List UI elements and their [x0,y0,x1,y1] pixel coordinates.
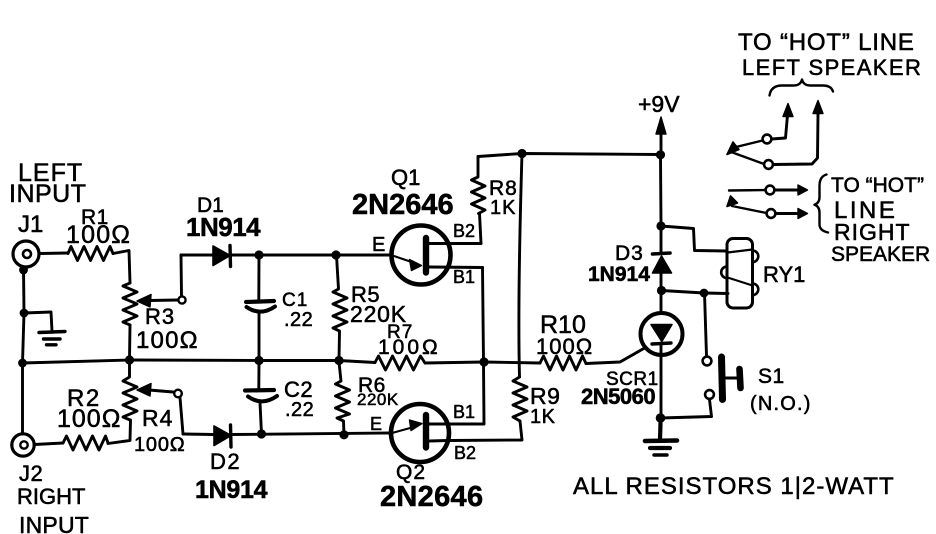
node dot below J1 [19,266,28,275]
svg-text:1K: 1K [530,406,556,428]
transistor Q2 2N2646 [391,404,449,462]
svg-text:B2: B2 [453,221,475,241]
svg-text:INPUT: INPUT [9,180,87,208]
svg-text:+9V: +9V [638,91,680,117]
svg-text:100Ω: 100Ω [134,434,186,456]
node dot S1 top [700,289,709,298]
arrowhead right 2 [798,209,808,219]
svg-text:2N2646: 2N2646 [352,189,454,221]
svg-text:100Ω: 100Ω [136,327,199,354]
svg-text:B1: B1 [453,402,475,422]
node dot C1 top [254,250,263,259]
svg-text:1N914: 1N914 [186,212,261,242]
wire Q1 B2 up to R8 [480,214,482,244]
resistor R6 [336,362,350,435]
brace right speaker [815,175,829,233]
svg-text:TO “HOT”: TO “HOT” [831,174,924,197]
jack J2 [12,434,34,456]
wire node A (upper) y=255 [181,254,391,257]
svg-text:E: E [370,414,382,434]
svg-text:ALL RESISTORS 1|2-WATT: ALL RESISTORS 1|2-WATT [573,473,895,500]
wire D3 to SCR [660,273,663,313]
svg-text:D2: D2 [210,449,241,474]
node dot rail-right [656,150,665,159]
R4 wiper line [149,390,173,392]
svg-text:Q1: Q1 [391,165,420,190]
wire J2 to R2 [35,443,64,445]
svg-text:J1: J1 [18,211,43,238]
svg-text:B1: B1 [453,267,475,287]
svg-text:SPEAKER: SPEAKER [831,243,930,266]
wire contact top-2 to up arrow [773,113,818,165]
ground symbol at J1 [39,332,65,345]
transistor Q1 2N2646 [391,226,483,285]
svg-text:220K: 220K [357,390,399,409]
node dot J-line to bus [18,359,27,368]
+9V supply arrow [656,117,666,154]
svg-text:D3: D3 [615,242,644,265]
wire R7 to B1 node [425,362,484,363]
relay moving contact arm (right speaker) [727,190,767,213]
relay contact fixed terminal bot-1 [766,186,775,195]
node dot R3 bottom [125,355,134,364]
node dot R5 bottom [334,356,343,365]
resistor R5 [333,256,347,361]
relay contact fixed terminal top-2 [764,160,773,169]
switch S1 [703,357,741,400]
ground symbol at SCR [645,423,677,455]
brace left speaker [770,80,834,96]
svg-text:RIGHT: RIGHT [17,484,85,509]
main bus y=362 [23,360,376,363]
svg-text:100Ω: 100Ω [57,405,121,433]
svg-text:LEFT SPEAKER: LEFT SPEAKER [742,55,922,80]
R3 wiper terminal circle [178,296,185,303]
svg-text:(N.O.): (N.O.) [750,393,812,415]
R3 bottom stem [128,325,131,360]
wire Q1 B1 down to bus and Q2 B1 [449,268,484,425]
wire SCR cathode down [659,344,662,423]
node dot C1 bottom [254,356,263,365]
SCR1 2N5060 [641,313,683,355]
node dot S1 branch [656,413,666,423]
wire B1-node to R10 [484,362,540,363]
wire node B (lower) y=434 [183,433,392,435]
node dot C2 bottom [257,429,266,438]
svg-text:1N914: 1N914 [588,263,650,286]
svg-text:.22: .22 [284,309,313,331]
svg-text:100Ω: 100Ω [66,221,131,249]
wire S1 bottom to cathode line [661,400,712,419]
node dot relay bottom branch [657,286,666,295]
wire down to S1 top terminal [705,293,707,356]
svg-text:S1: S1 [758,365,785,388]
diode D2 [214,425,231,447]
wire J1 to R1 [40,252,69,255]
wire wiper circle up to D1 line [180,255,183,296]
R4 wiper arrow [137,384,151,397]
wire contact bot-1 right arrow [775,189,800,192]
svg-text:RIGHT: RIGHT [834,219,911,245]
wire R2 to R4 bottom [108,420,131,444]
wire relay top branch [661,226,727,251]
wire rail down to R9 [519,154,522,378]
svg-text:R3: R3 [145,304,175,329]
svg-text:2N2646: 2N2646 [380,481,483,513]
wire J1 down to J2 [23,268,25,435]
R3 wiper arrow [137,295,151,308]
svg-text:J2: J2 [19,461,43,486]
wire contact top-1 to up arrow [772,115,788,139]
+9V rail [478,154,661,157]
node dot R5 top [331,250,340,259]
node dot R6 bottom [339,430,348,439]
resistor R7 [375,356,425,370]
svg-text:RY1: RY1 [763,262,805,287]
capacitor C1 [246,255,275,360]
relay contact fixed terminal bot-2 [767,209,776,218]
svg-text:.22: .22 [285,399,314,421]
arrowhead up 1 [783,104,793,117]
main right vertical +9V line [659,155,662,252]
resistor R9 [513,377,527,421]
capacitor C2 [245,362,277,434]
node dot rail-R9 [517,149,526,158]
node dot ground branch [20,309,29,318]
svg-text:TO “HOT” LINE: TO “HOT” LINE [738,29,915,56]
jack J1 [13,241,39,267]
resistor R10 [540,356,586,370]
wire R1 to R3 top [113,251,130,284]
svg-text:100Ω: 100Ω [378,336,441,359]
wire wiper circle down to D2 line [180,398,183,435]
resistor R2 [63,436,108,450]
svg-text:1N914: 1N914 [195,476,268,504]
svg-text:E: E [372,234,385,256]
wire contact bot-2 right arrow [776,212,800,215]
svg-text:100Ω: 100Ω [536,334,593,359]
arrowhead up 2 [813,101,823,114]
node dot relay top branch [656,221,665,230]
svg-text:1K: 1K [490,197,516,219]
resistor R8 [472,157,486,214]
wire relay bottom branch [662,291,729,294]
relay moving contact arm (left speaker) [727,141,764,165]
svg-text:INPUT: INPUT [19,512,89,534]
potentiometer R3 [123,283,137,325]
R3 wiper line [149,299,178,302]
svg-text:2N5060: 2N5060 [581,384,655,409]
relay coil RY1 [721,239,758,309]
wire to ground J1 [24,312,52,331]
diode D3 [653,253,672,273]
svg-text:B2: B2 [454,443,476,463]
diode D1 [213,246,231,267]
relay contact fixed terminal top-1 [763,135,772,144]
svg-text:C1: C1 [282,290,308,311]
wire R10 to SCR gate [586,348,646,364]
resistor R1 [68,247,113,261]
svg-text:R4: R4 [142,405,173,431]
node dot B1 junction [479,357,488,366]
R4 wiper terminal circle [174,390,182,398]
wire R9 to Q2 B2 [448,421,522,441]
arrowhead right 1 [798,185,808,195]
potentiometer R4 [123,360,137,420]
